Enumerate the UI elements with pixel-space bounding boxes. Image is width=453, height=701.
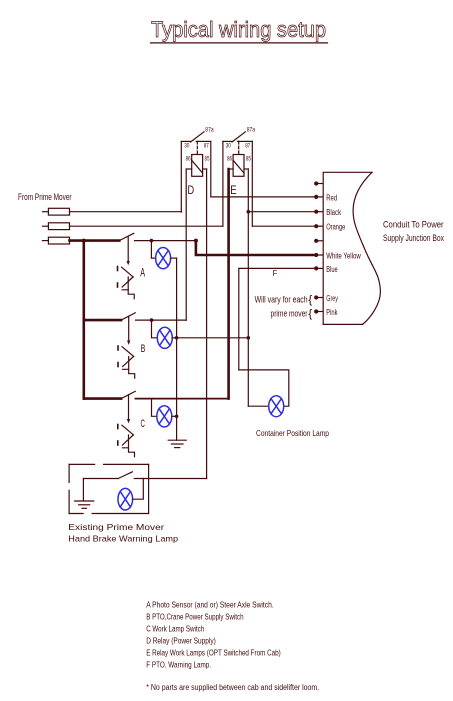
svg-text:C Work Lamp Switch: C Work Lamp Switch [146,624,204,633]
wire relay E pin 87 to Orange terminal [252,225,316,227]
svg-text:86: 86 [186,157,191,163]
wire Black terminal from relay E pin 85 [248,211,316,213]
relay D pin label 86 [186,157,191,163]
dashed box existing prime mover [69,464,149,513]
junction lamp B tap [150,318,154,322]
wire relay D pin 86 to switch B row [185,169,187,320]
label relay D [188,183,195,197]
switch B actuator [118,316,135,378]
switch A [119,233,151,240]
svg-text:87a: 87a [205,128,214,134]
svg-text:White Yellow: White Yellow [326,251,361,260]
wire switch B to relay D pin 86 [152,319,187,321]
wire supply bus (thick vertical) [83,241,86,399]
ground (below lamp C) [168,440,186,447]
wire relay D pin 85 down to hand brake switch [206,169,208,479]
wire lamp to switch wire [133,479,144,500]
svg-text:85: 85 [205,157,210,163]
relay E pin label 87 [245,143,250,149]
wire relay E pin 85 ground run [247,169,249,406]
wire label Red [326,193,337,202]
conduit terminal Grey [314,295,323,299]
label F [273,269,278,278]
wire label Pink [326,308,338,317]
hand brake warning lamp [118,488,133,510]
conduit outline [323,172,380,324]
label existing prime mover hand brake warning lamp [68,522,178,544]
wire blue to container position lamp [239,268,316,370]
lamp A feed wire [151,241,155,259]
svg-text:{: { [308,294,312,306]
svg-text:D Relay (Power Supply): D Relay (Power Supply) [146,636,216,645]
junction white yellow takeoff [194,239,198,243]
svg-text:F: F [273,269,278,278]
wire label Grey [326,294,338,303]
label switch A [140,266,145,280]
conduit terminal spare 1 [314,181,323,185]
svg-text:Typical wiring setup: Typical wiring setup [151,17,326,42]
relay D [181,132,211,212]
relay E pin label 86 [227,157,232,163]
wire lamp outputs down to ground [176,258,178,440]
svg-text:B: B [141,343,146,355]
switch C [121,391,229,398]
svg-text:A Photo Sensor (and or) Steer: A Photo Sensor (and or) Steer Axle Switc… [146,600,274,609]
relay D pin label 85 [205,157,210,163]
footnote [146,683,319,692]
conduit terminal spare 2 [314,239,323,243]
fuse F3 [43,237,70,244]
lamp A [156,248,171,269]
svg-text:86: 86 [227,157,232,163]
title underline [151,42,328,44]
wire relay D pin 85 into box [134,478,206,480]
conduit terminal White Yellow [314,253,323,257]
junction lamp A tap [150,239,154,243]
svg-text:C: C [141,418,145,430]
svg-text:30: 30 [226,143,231,149]
junction lamp C output [175,415,179,419]
wire lamp C output [172,415,177,417]
lamp C feed wire [152,399,157,417]
svg-text:Conduit To Power: Conduit To Power [383,219,444,229]
svg-text:Container Position Lamp: Container Position Lamp [256,428,329,438]
lamp B feed wire [152,320,158,338]
svg-text:Blue: Blue [326,265,338,274]
svg-text:D: D [188,183,195,197]
legend [146,600,281,669]
wire lamp outputs to relay E pin 85 [177,337,249,339]
wire label White Yellow [326,251,361,260]
wire lamp B output [172,337,176,339]
relay E pin label 87a [247,128,256,134]
svg-text:87a: 87a [247,128,256,134]
wire white yellow (thick) [196,241,316,255]
conduit terminal Pink [314,309,323,313]
svg-text:Supply Junction Box: Supply Junction Box [383,233,444,243]
switch B [121,313,151,320]
wire relay E pin 86 to switch C row (thick) [227,169,230,399]
relay E pin label 85 [246,157,251,163]
wire relay D pin 87 to Red terminal [211,196,316,198]
label switch C [141,418,145,430]
switch A actuator [118,237,135,299]
wire label Black [326,208,342,217]
relay E [223,132,252,226]
svg-text:A: A [140,266,145,280]
wire switch to ground [82,479,84,501]
switch C row (thick) [84,397,121,400]
relay D pin label 30 [184,143,189,149]
svg-text:prime mover: prime mover [271,309,308,319]
label: From Prime Mover [18,192,72,203]
label switch B [141,343,146,355]
lamp C [157,406,172,427]
svg-text:Red: Red [326,193,337,202]
wire container lamp left leg [248,405,268,407]
fuse F1 [43,208,70,215]
svg-text:30: 30 [184,143,189,149]
junction black tap [247,210,251,214]
wire lamp A output [171,257,177,259]
svg-text:From Prime Mover: From Prime Mover [18,192,72,203]
svg-text:87: 87 [245,143,250,149]
fuse F2 [43,223,70,230]
wire label Orange [326,223,345,232]
junction lamp outputs [175,336,179,340]
label Conduit To Power Supply Junction Box [383,219,444,243]
wire fuse F1 to relay D pin 30 [70,211,182,213]
svg-text:Existing Prime Mover: Existing Prime Mover [68,522,164,532]
relay D pin label 87 [204,143,209,149]
svg-text:Pink: Pink [326,308,338,317]
hand brake switch [83,472,132,479]
label relay E [230,183,236,197]
svg-text:{: { [308,308,312,320]
container position lamp [269,396,284,417]
relay D pin label 87a [205,128,214,134]
title: Typical wiring setup [151,17,326,42]
svg-text:Orange: Orange [326,223,345,232]
svg-text:87: 87 [204,143,209,149]
wire fuse F3 to switch A (thick) [70,239,120,242]
label Container Position Lamp [256,428,329,438]
svg-text:Hand Brake Warning Lamp: Hand Brake Warning Lamp [68,534,178,544]
svg-text:Will vary for each: Will vary for each [255,294,308,304]
svg-text:B PTO,Crane Power Supply Switc: B PTO,Crane Power Supply Switch [146,612,243,621]
switch B row (thick) [84,319,121,322]
conduit terminal Blue [314,266,323,270]
ground (hand brake) [75,501,94,508]
wire fuse F2 to relay E pin 30 [70,225,223,227]
relay E pin label 30 [226,143,231,149]
wire switch A to white-yellow takeoff [151,240,196,242]
conduit terminal Black [314,210,323,214]
svg-text:E: E [230,183,236,197]
svg-text:F PTO. Warning Lamp.: F PTO. Warning Lamp. [146,660,211,669]
junction bus tap [82,239,86,243]
svg-text:85: 85 [246,157,251,163]
svg-text:E Relay Work Lamps (OPT Switch: E Relay Work Lamps (OPT Switched From Ca… [146,648,281,657]
wire container lamp right leg [239,370,289,406]
note will vary for each prime mover [255,294,313,320]
wire label Blue [326,265,338,274]
conduit terminal Orange [314,224,323,228]
junction at relay E pin 85 run [247,336,251,340]
svg-text:* No parts are supplied betwee: * No parts are supplied between cab and … [146,683,319,692]
svg-text:Black: Black [326,208,342,217]
conduit terminal Red [314,195,323,199]
lamp B [157,327,172,348]
switch C actuator [118,395,135,457]
svg-text:Grey: Grey [326,294,338,303]
